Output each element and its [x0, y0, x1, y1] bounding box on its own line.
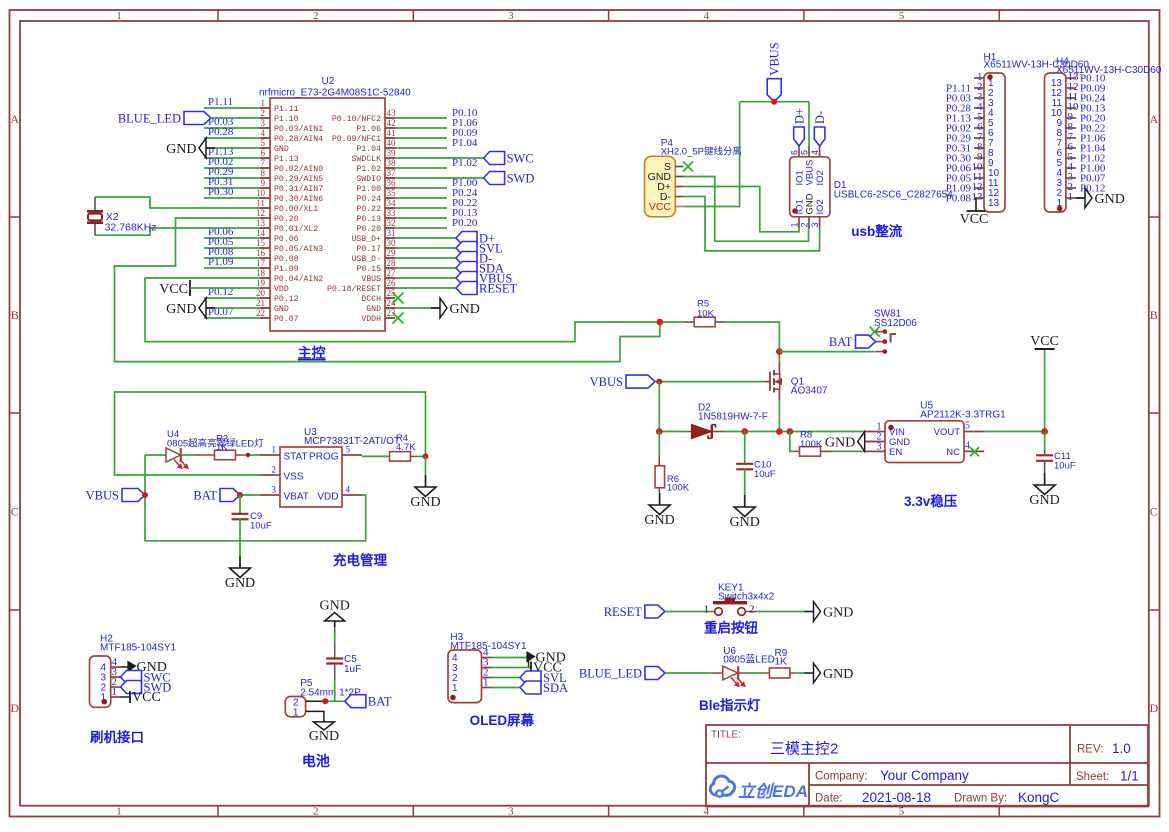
svg-text:P1.11: P1.11 — [274, 105, 299, 114]
svg-text:31: 31 — [387, 228, 396, 238]
svg-text:D: D — [1149, 701, 1158, 715]
svg-text:SDA: SDA — [543, 681, 568, 695]
svg-text:充电管理: 充电管理 — [333, 552, 387, 568]
svg-text:VDD: VDD — [317, 492, 338, 503]
svg-text:VBUS: VBUS — [805, 160, 816, 186]
svg-text:P0.10/NFC2: P0.10/NFC2 — [332, 114, 381, 124]
svg-text:3: 3 — [261, 118, 266, 128]
svg-text:26: 26 — [387, 278, 397, 288]
svg-text:P0.09/NFC1: P0.09/NFC1 — [332, 134, 381, 144]
svg-text:38: 38 — [387, 158, 397, 168]
svg-text:25: 25 — [387, 288, 397, 298]
svg-text:6: 6 — [261, 148, 266, 158]
svg-text:nrfmicro_E73-2G4M08S1C-52840: nrfmicro_E73-2G4M08S1C-52840 — [259, 88, 411, 99]
svg-text:GND: GND — [823, 606, 853, 621]
svg-text:STAT: STAT — [284, 452, 308, 463]
svg-text:VBUS: VBUS — [86, 489, 119, 503]
svg-text:P0.03/AIN1: P0.03/AIN1 — [274, 124, 323, 134]
svg-text:主控: 主控 — [298, 345, 326, 361]
svg-text:VBAT: VBAT — [284, 492, 309, 503]
svg-text:USBLC6-2SC6_C2827654: USBLC6-2SC6_C2827654 — [834, 190, 953, 201]
svg-text:1/1: 1/1 — [1120, 769, 1139, 784]
svg-text:1: 1 — [261, 98, 266, 108]
svg-text:16: 16 — [256, 248, 266, 258]
svg-text:GND: GND — [320, 599, 350, 614]
svg-text:KongC: KongC — [1018, 790, 1060, 805]
svg-text:100K: 100K — [667, 483, 690, 494]
svg-text:P0.07: P0.07 — [274, 315, 299, 324]
svg-text:2: 2 — [800, 222, 810, 227]
svg-text:D-: D- — [813, 111, 827, 124]
svg-text:VSS: VSS — [284, 472, 304, 483]
svg-text:37: 37 — [387, 168, 397, 178]
svg-text:VOUT: VOUT — [934, 427, 961, 438]
svg-text:P0.06: P0.06 — [274, 235, 299, 244]
svg-text:立创EDA: 立创EDA — [738, 782, 808, 801]
svg-text:VCC: VCC — [960, 212, 989, 227]
svg-text:DCCH: DCCH — [361, 295, 381, 304]
svg-text:P1.10: P1.10 — [274, 115, 299, 124]
svg-text:15: 15 — [256, 238, 266, 248]
svg-text:SS12D06: SS12D06 — [874, 318, 917, 329]
svg-text:40: 40 — [387, 138, 397, 148]
svg-text:1: 1 — [704, 604, 710, 616]
svg-text:P1.06: P1.06 — [356, 125, 381, 134]
svg-text:D: D — [10, 701, 19, 715]
svg-text:1: 1 — [1068, 191, 1074, 203]
svg-text:P0.12: P0.12 — [274, 295, 299, 304]
svg-text:10uF: 10uF — [1054, 461, 1076, 472]
svg-text:GND: GND — [309, 729, 339, 744]
svg-text:VCC: VCC — [159, 282, 188, 297]
svg-text:4: 4 — [965, 440, 970, 451]
svg-text:2: 2 — [313, 10, 319, 22]
svg-text:41: 41 — [387, 128, 396, 138]
svg-text:GND: GND — [730, 515, 760, 530]
svg-text:IO2: IO2 — [815, 170, 826, 185]
svg-text:P0.30/AIN6: P0.30/AIN6 — [274, 194, 323, 204]
svg-text:VBUS: VBUS — [768, 42, 782, 75]
svg-text:P0.18/RESET: P0.18/RESET — [327, 284, 381, 294]
svg-text:5: 5 — [965, 421, 970, 432]
svg-text:24: 24 — [387, 298, 397, 308]
svg-text:10uF: 10uF — [754, 469, 776, 480]
svg-text:P0.01/XL2: P0.01/XL2 — [274, 224, 318, 234]
svg-text:BAT: BAT — [368, 695, 392, 709]
svg-text:GND: GND — [644, 513, 674, 528]
svg-text:28: 28 — [387, 258, 397, 268]
svg-text:2: 2 — [272, 465, 277, 475]
svg-text:P1.09: P1.09 — [208, 256, 234, 268]
svg-text:GND: GND — [166, 142, 196, 157]
svg-text:1: 1 — [452, 683, 458, 694]
svg-text:P0.05/AIN3: P0.05/AIN3 — [274, 244, 323, 254]
svg-text:B: B — [11, 308, 19, 322]
svg-text:2: 2 — [261, 108, 266, 118]
svg-text:GND: GND — [274, 145, 289, 154]
svg-text:P0.31/AIN7: P0.31/AIN7 — [274, 184, 323, 194]
svg-text:P1.00: P1.00 — [356, 185, 381, 194]
svg-text:USB_D-: USB_D- — [352, 255, 381, 264]
svg-text:P0.22: P0.22 — [356, 205, 381, 214]
svg-text:EN: EN — [889, 447, 902, 458]
svg-text:P1.04: P1.04 — [356, 145, 381, 154]
svg-text:9: 9 — [261, 178, 266, 188]
svg-text:2021-08-18: 2021-08-18 — [862, 790, 931, 805]
svg-text:VBUS: VBUS — [590, 375, 623, 389]
svg-text:32.768KHz: 32.768KHz — [105, 222, 157, 234]
svg-text:Date:: Date: — [815, 793, 843, 805]
svg-text:21: 21 — [256, 298, 265, 308]
svg-text:10uF: 10uF — [250, 521, 272, 532]
svg-text:BAT: BAT — [829, 335, 853, 349]
svg-text:P0.28/AIN4: P0.28/AIN4 — [274, 134, 323, 144]
svg-text:GND: GND — [450, 302, 480, 317]
svg-text:USB_D+: USB_D+ — [352, 235, 382, 244]
svg-text:19: 19 — [256, 278, 266, 288]
svg-text:32: 32 — [387, 218, 396, 228]
svg-text:P1.09: P1.09 — [274, 265, 299, 274]
svg-text:Company:: Company: — [815, 771, 867, 783]
svg-text:P1.11: P1.11 — [208, 96, 233, 108]
svg-text:Sheet:: Sheet: — [1076, 771, 1109, 783]
svg-text:IO2: IO2 — [815, 199, 826, 214]
svg-text:12: 12 — [256, 208, 265, 218]
svg-text:电池: 电池 — [302, 753, 330, 769]
svg-text:D+: D+ — [793, 108, 807, 124]
svg-text:1N5819HW-7-F: 1N5819HW-7-F — [698, 412, 768, 423]
svg-text:2: 2 — [313, 805, 319, 817]
svg-text:1: 1 — [483, 677, 489, 689]
svg-text:3.3v稳压: 3.3v稳压 — [904, 493, 958, 509]
svg-text:GND: GND — [366, 305, 381, 314]
svg-text:2: 2 — [749, 604, 755, 616]
svg-text:usb整流: usb整流 — [851, 223, 903, 239]
svg-text:13: 13 — [256, 218, 266, 228]
svg-text:P0.15: P0.15 — [356, 265, 381, 274]
svg-text:BLUE_LED: BLUE_LED — [118, 112, 181, 126]
svg-text:1: 1 — [112, 686, 118, 698]
svg-text:C: C — [11, 505, 19, 519]
svg-text:4: 4 — [346, 485, 351, 495]
svg-text:34: 34 — [387, 198, 397, 208]
svg-text:BAT: BAT — [193, 489, 217, 503]
svg-text:GND: GND — [823, 667, 853, 682]
svg-text:4: 4 — [703, 10, 709, 22]
svg-text:42: 42 — [387, 118, 396, 128]
svg-text:20: 20 — [256, 288, 266, 298]
svg-text:C: C — [1150, 505, 1158, 519]
svg-text:A: A — [1149, 112, 1158, 126]
svg-text:1K: 1K — [216, 442, 228, 453]
svg-text:SWC: SWC — [507, 152, 534, 166]
svg-text:VDD: VDD — [274, 285, 289, 294]
svg-text:33: 33 — [387, 208, 397, 218]
svg-text:P0.08: P0.08 — [274, 255, 299, 264]
svg-text:GND: GND — [1029, 493, 1059, 508]
svg-text:P1.02: P1.02 — [452, 157, 477, 169]
svg-text:VCC: VCC — [132, 690, 161, 705]
svg-text:4: 4 — [810, 150, 820, 155]
svg-text:36: 36 — [387, 178, 397, 188]
svg-text:35: 35 — [387, 188, 397, 198]
svg-text:MTF185-104SY1: MTF185-104SY1 — [100, 643, 177, 654]
svg-text:100K: 100K — [800, 439, 823, 450]
svg-text:XH2.0_5P键线分离: XH2.0_5P键线分离 — [661, 146, 742, 158]
svg-text:7: 7 — [261, 158, 266, 168]
svg-text:三模主控2: 三模主控2 — [770, 741, 838, 758]
svg-text:MCP73831T-2ATI/OT: MCP73831T-2ATI/OT — [304, 436, 400, 447]
svg-text:GND: GND — [274, 305, 289, 314]
svg-text:U2: U2 — [322, 76, 335, 87]
svg-text:P0.20: P0.20 — [356, 225, 381, 234]
svg-text:3: 3 — [508, 10, 514, 22]
svg-text:GND: GND — [825, 436, 855, 451]
svg-text:GND: GND — [166, 302, 196, 317]
svg-text:29: 29 — [387, 248, 397, 258]
svg-text:P1.04: P1.04 — [452, 137, 478, 149]
svg-text:1: 1 — [293, 708, 299, 719]
svg-text:13: 13 — [988, 198, 1000, 209]
svg-text:SWDIO: SWDIO — [356, 175, 381, 184]
svg-text:3: 3 — [508, 805, 514, 817]
svg-text:1uF: 1uF — [344, 664, 361, 675]
svg-text:PROG: PROG — [309, 452, 339, 463]
svg-text:P0.20: P0.20 — [452, 217, 478, 229]
svg-text:6: 6 — [790, 150, 800, 155]
svg-text:10: 10 — [256, 188, 266, 198]
svg-text:Your Company: Your Company — [880, 768, 969, 783]
svg-text:P0.17: P0.17 — [356, 245, 381, 254]
svg-text:P0.02/AIN0: P0.02/AIN0 — [274, 164, 323, 174]
svg-text:17: 17 — [256, 258, 266, 268]
svg-text:P0.00/XL1: P0.00/XL1 — [274, 204, 318, 214]
svg-text:23: 23 — [387, 308, 397, 318]
svg-text:1K: 1K — [775, 657, 788, 668]
svg-text:VCC: VCC — [649, 201, 672, 213]
svg-text:39: 39 — [387, 148, 397, 158]
svg-text:VDDH: VDDH — [361, 315, 381, 324]
svg-text:SWD: SWD — [507, 172, 535, 186]
svg-text:OLED屏幕: OLED屏幕 — [470, 712, 535, 728]
svg-text:P0.28: P0.28 — [208, 126, 234, 138]
svg-text:P0.30: P0.30 — [208, 186, 234, 198]
svg-text:3: 3 — [810, 222, 820, 227]
svg-text:0805蓝LED: 0805蓝LED — [723, 654, 775, 666]
svg-text:5: 5 — [261, 138, 266, 148]
svg-text:30: 30 — [387, 238, 397, 248]
svg-text:Drawn By:: Drawn By: — [954, 793, 1007, 805]
svg-text:10K: 10K — [697, 309, 715, 320]
svg-text:A: A — [10, 112, 19, 126]
svg-text:P0.29/AIN5: P0.29/AIN5 — [274, 174, 323, 184]
svg-text:1: 1 — [116, 10, 122, 22]
svg-text:REV:: REV: — [1077, 744, 1103, 756]
svg-text:5: 5 — [899, 10, 905, 22]
svg-text:3: 3 — [877, 441, 882, 452]
svg-text:Ble指示灯: Ble指示灯 — [699, 697, 761, 713]
svg-text:14: 14 — [256, 228, 266, 238]
svg-text:SWDCLK: SWDCLK — [352, 155, 382, 164]
svg-text:VBUS: VBUS — [361, 275, 381, 284]
svg-text:NC: NC — [946, 447, 960, 458]
svg-text:8: 8 — [261, 168, 266, 178]
svg-text:5: 5 — [800, 150, 810, 155]
svg-text:AO3407: AO3407 — [791, 386, 828, 397]
svg-text:27: 27 — [387, 268, 397, 278]
svg-text:18: 18 — [256, 268, 266, 278]
svg-text:P1.13: P1.13 — [274, 155, 299, 164]
svg-text:重启按钮: 重启按钮 — [704, 620, 758, 636]
svg-text:13: 13 — [972, 191, 984, 203]
svg-text:P0.08: P0.08 — [946, 193, 972, 205]
svg-text:1: 1 — [790, 222, 800, 227]
svg-text:GND: GND — [410, 495, 440, 510]
svg-text:AP2112K-3.3TRG1: AP2112K-3.3TRG1 — [920, 410, 1006, 421]
svg-text:4.7K: 4.7K — [396, 442, 416, 453]
svg-text:3: 3 — [272, 485, 277, 495]
svg-text:GND: GND — [225, 576, 255, 591]
svg-text:刷机接口: 刷机接口 — [90, 729, 144, 745]
svg-text:1.0: 1.0 — [1112, 741, 1131, 756]
svg-text:1: 1 — [272, 445, 277, 455]
svg-text:4: 4 — [261, 128, 266, 138]
svg-text:P0.04/AIN2: P0.04/AIN2 — [274, 274, 323, 284]
svg-text:VCC: VCC — [1030, 334, 1059, 349]
svg-text:P0.26: P0.26 — [274, 215, 299, 224]
svg-text:11: 11 — [256, 198, 265, 208]
svg-text:B: B — [1150, 308, 1158, 322]
svg-text:5: 5 — [346, 445, 351, 455]
svg-text:GND: GND — [1095, 192, 1125, 207]
svg-text:22: 22 — [256, 308, 265, 318]
svg-text:P1.02: P1.02 — [356, 165, 381, 174]
svg-text:P0.13: P0.13 — [356, 215, 381, 224]
svg-text:GND: GND — [805, 193, 816, 214]
svg-text:BLUE_LED: BLUE_LED — [579, 667, 642, 681]
svg-text:P0.24: P0.24 — [356, 195, 381, 204]
svg-text:43: 43 — [387, 108, 397, 118]
svg-text:TITLE:: TITLE: — [711, 730, 741, 741]
svg-text:RESET: RESET — [479, 282, 518, 296]
svg-text:RESET: RESET — [604, 605, 643, 619]
svg-text:1: 1 — [116, 805, 122, 817]
svg-text:MTF185-104SY1: MTF185-104SY1 — [450, 641, 527, 652]
